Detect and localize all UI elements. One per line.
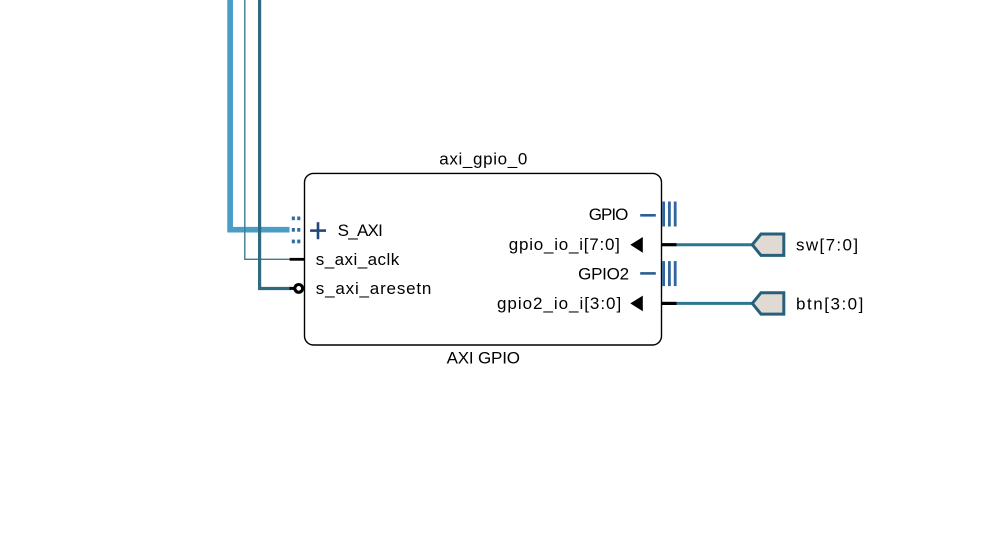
svg-text:axi_gpio_0: axi_gpio_0: [439, 149, 527, 168]
svg-text:GPIO2: GPIO2: [578, 264, 629, 283]
pin stub gpio_io_i: [662, 243, 677, 246]
port btn[3:0] symbol: [752, 293, 784, 314]
svg-text:gpio_io_i[7:0]: gpio_io_i[7:0]: [509, 235, 620, 254]
pin GPIO2 dash: [640, 272, 656, 275]
pin GPIO2 interface hash bars: [662, 261, 676, 286]
svg-text:s_axi_aresetn: s_axi_aresetn: [316, 279, 432, 298]
wire s_axi_aresetn: [260, 0, 291, 289]
pin S_AXI expand plus: [310, 222, 326, 239]
svg-text:GPIO: GPIO: [589, 205, 629, 224]
wire gpio_io_i to sw: [677, 243, 753, 246]
pin S_AXI interface dots: [292, 217, 301, 244]
wire gpio2_io_i to btn: [677, 302, 753, 305]
pin stub s_axi_aclk: [290, 258, 305, 261]
svg-text:s_axi_aclk: s_axi_aclk: [316, 250, 400, 269]
wire s_axi_aclk: [245, 0, 290, 259]
pin stub s_axi_aresetn: [290, 287, 295, 290]
node s_axi_aresetn inverter bubble: [295, 285, 303, 293]
svg-text:S_AXI: S_AXI: [338, 221, 383, 240]
pin GPIO dash: [640, 214, 656, 217]
pin gpio2_io_i direction triangle: [630, 296, 643, 312]
pin stub gpio2_io_i: [662, 302, 677, 305]
port sw[7:0] symbol: [752, 234, 784, 255]
pin GPIO interface hash bars: [662, 202, 676, 227]
svg-text:btn[3:0]: btn[3:0]: [796, 294, 863, 313]
svg-text:gpio2_io_i[3:0]: gpio2_io_i[3:0]: [497, 294, 621, 313]
wire S_AXI interface bus: [230, 0, 289, 230]
pin gpio_io_i direction triangle: [630, 237, 643, 253]
svg-text:AXI GPIO: AXI GPIO: [447, 348, 520, 367]
block axi_gpio_0 body: [305, 173, 662, 345]
svg-text:sw[7:0]: sw[7:0]: [796, 235, 858, 254]
